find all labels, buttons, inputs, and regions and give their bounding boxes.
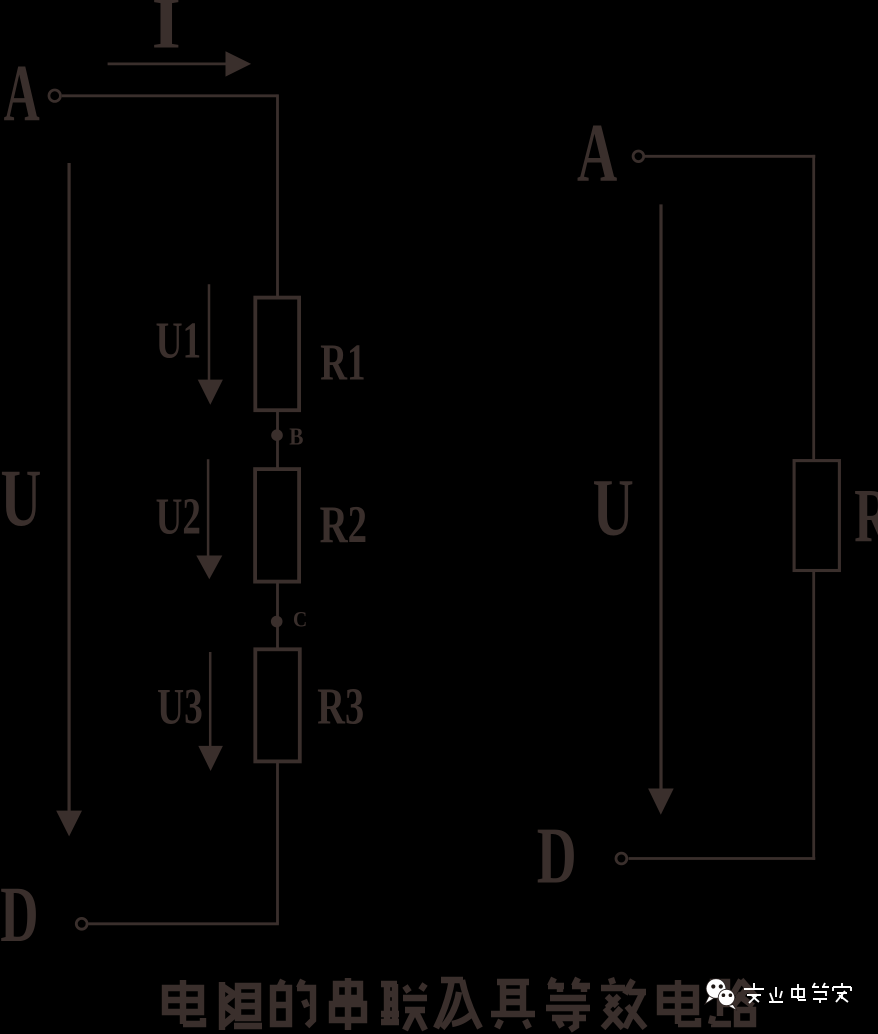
- node B (junction dot): [271, 429, 283, 441]
- svg-text:A: A: [4, 48, 40, 139]
- resistor R (equivalent): [794, 461, 839, 571]
- title char 阻: [222, 982, 262, 1030]
- svg-text:U: U: [593, 464, 634, 553]
- wire A to corner (top horizontal): [62, 94, 278, 97]
- title char 联: [381, 984, 427, 1030]
- svg-text:C: C: [293, 606, 307, 632]
- title char 等: [546, 978, 590, 1030]
- svg-text:D: D: [537, 810, 577, 900]
- current arrow I: [108, 51, 252, 76]
- voltage arrow U3: [198, 652, 223, 771]
- node D left (terminal circle): [76, 918, 87, 929]
- logo text 管: [812, 983, 829, 1003]
- voltage arrow U right (long): [648, 204, 674, 814]
- title char 路: [711, 980, 755, 1024]
- svg-text:D: D: [0, 870, 38, 958]
- wire corner down to R1: [276, 94, 279, 297]
- svg-text:U: U: [1, 454, 42, 543]
- voltage arrow U left (long): [56, 163, 82, 836]
- svg-text:R3: R3: [317, 677, 364, 735]
- svg-text:R2: R2: [320, 497, 368, 555]
- svg-text:I: I: [152, 0, 181, 63]
- wire bottom horizontal to node D: [89, 922, 279, 925]
- logo text 电: [792, 984, 806, 1000]
- logo text 心: [769, 987, 783, 1002]
- svg-text:U3: U3: [157, 678, 203, 735]
- wire R2 to R3: [276, 583, 279, 648]
- svg-text:U1: U1: [156, 312, 202, 369]
- node A right (terminal circle): [633, 151, 644, 162]
- watermark logo 安心电管家 (white): [705, 979, 851, 1011]
- resistor R3: [255, 649, 299, 761]
- wire bottom horizontal to node D right: [629, 857, 816, 860]
- title 电阻的串联及其等效电路 (hand-drawn strokes): [165, 978, 755, 1030]
- logo text 安: [744, 983, 851, 1003]
- logo text 家: [833, 983, 851, 1002]
- title char 电: [165, 980, 203, 1024]
- black underline band behind title (opaque black in source): [160, 1022, 757, 1034]
- title char 及: [436, 980, 480, 1028]
- svg-text:R1: R1: [320, 334, 365, 391]
- svg-text:R: R: [854, 474, 878, 559]
- logo bubble big: [705, 979, 726, 1004]
- wire R3 down to bottom corner: [276, 763, 279, 924]
- wire R down to bottom corner: [812, 571, 815, 860]
- logo bubble big eyes: [711, 984, 715, 988]
- logo bubble small: [718, 989, 737, 1010]
- svg-text:A: A: [577, 108, 617, 200]
- voltage arrow U2: [196, 459, 222, 579]
- voltage arrow U1: [198, 284, 223, 405]
- wire R1 to R2: [276, 412, 279, 468]
- title char 串: [332, 978, 364, 1030]
- logo bubble small eyes: [722, 993, 726, 997]
- resistor R1: [255, 298, 299, 411]
- title char 的: [273, 980, 313, 1026]
- title char 效: [601, 978, 646, 1028]
- node D right (terminal circle): [616, 853, 627, 864]
- wire corner down to R: [812, 155, 815, 460]
- node A left (terminal circle): [49, 90, 61, 102]
- title char 电 (2nd): [660, 980, 698, 1024]
- title char 其: [491, 982, 535, 1028]
- svg-text:B: B: [289, 422, 303, 450]
- scrollbar black bar at right edge (opaque black in source, behind R label): [866, 468, 877, 562]
- node C (junction dot): [271, 616, 283, 628]
- svg-text:U2: U2: [156, 487, 201, 544]
- resistor R2: [255, 469, 299, 581]
- wire A right to corner: [645, 155, 815, 158]
